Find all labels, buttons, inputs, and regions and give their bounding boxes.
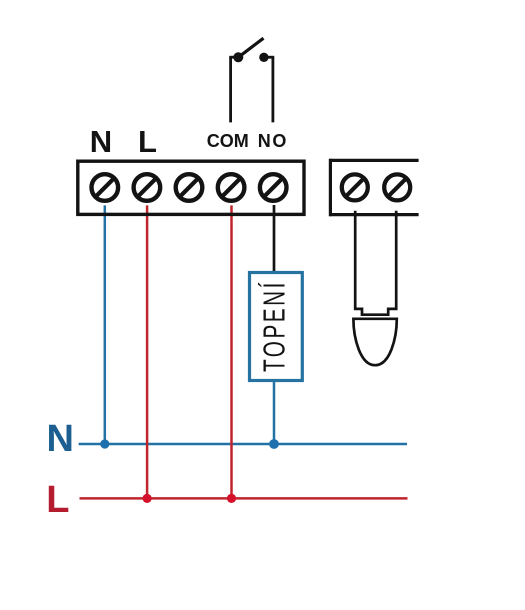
svg-text:N: N <box>90 124 112 159</box>
svg-text:N: N <box>46 418 73 460</box>
terminal block TB1 <box>78 161 304 214</box>
svg-text:COM: COM <box>207 131 249 151</box>
sensor terminal block TB2 <box>329 159 418 216</box>
svg-text:L: L <box>138 124 157 159</box>
screw terminal (unused) <box>176 174 203 201</box>
wire NO terminal to heater box (black) <box>273 205 276 273</box>
junction heater / N rail <box>269 439 279 449</box>
wire heater box to N rail (blue) <box>273 381 276 445</box>
L rail (line net) <box>80 497 408 500</box>
relay switch S1 (NO contact) <box>229 38 274 122</box>
screw terminal L <box>134 174 161 201</box>
sensor probe leads <box>355 211 396 315</box>
junction N wire / N rail <box>100 439 109 448</box>
junction COM wire / L rail <box>227 494 236 503</box>
svg-text:TOPENÍ: TOPENÍ <box>256 280 291 372</box>
sensor probe bulb <box>353 319 396 365</box>
wire N terminal down to N rail (blue) <box>104 205 107 444</box>
svg-text:NO: NO <box>258 131 288 151</box>
N rail (neutral net) <box>79 443 407 446</box>
svg-text:L: L <box>46 479 69 521</box>
junction L wire / L rail <box>143 494 152 503</box>
wire L terminal down to L rail (red) <box>146 205 149 498</box>
screw terminal sensor 2 <box>384 174 410 200</box>
screw terminal NO <box>260 174 287 201</box>
heater box TOPENI <box>250 273 303 381</box>
screw terminal N <box>92 174 119 201</box>
screw terminal COM <box>218 174 245 201</box>
screw terminal sensor 1 <box>342 174 368 200</box>
wire COM terminal down to L rail (red) <box>230 205 233 498</box>
